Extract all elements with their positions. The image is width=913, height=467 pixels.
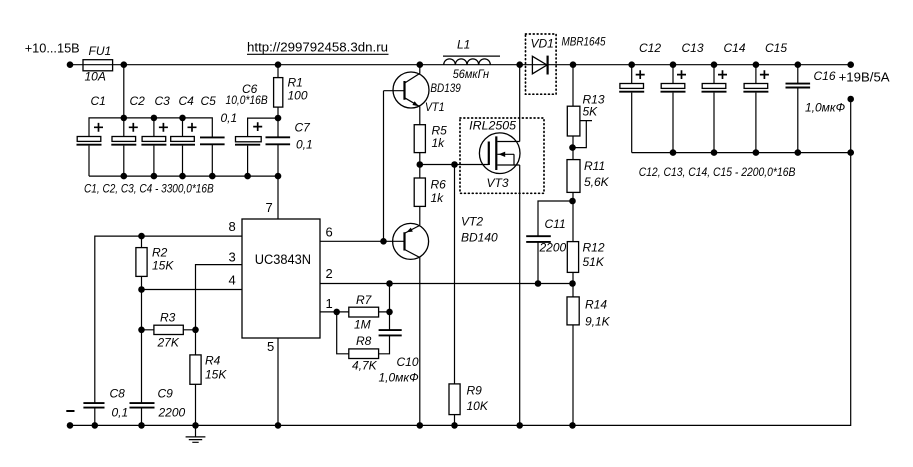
svg-text:4,7K: 4,7K [352,359,378,373]
svg-text:+19В/5А: +19В/5А [839,70,890,85]
svg-text:C5: C5 [201,94,217,108]
svg-text:C10: C10 [397,355,419,369]
svg-text:15K: 15K [152,259,174,273]
svg-text:C7: C7 [295,121,312,135]
svg-text:1,0мкФ: 1,0мкФ [379,371,420,385]
svg-text:4: 4 [229,273,236,288]
svg-text:C11: C11 [545,217,566,231]
svg-text:http://299792458.3dn.ru: http://299792458.3dn.ru [247,40,388,55]
svg-text:10,0*16В: 10,0*16В [226,93,268,107]
svg-text:R1: R1 [288,76,303,90]
svg-text:UC3843N: UC3843N [255,252,311,267]
svg-text:C8: C8 [110,387,126,401]
svg-text:C2: C2 [130,94,146,108]
svg-text:IRL2505: IRL2505 [469,119,516,133]
svg-text:1,0мкФ: 1,0мкФ [805,101,846,115]
svg-text:0,1: 0,1 [112,406,129,420]
svg-text:BD140: BD140 [461,231,498,245]
svg-text:2200: 2200 [539,241,567,255]
svg-text:0,1: 0,1 [296,138,313,152]
svg-text:2: 2 [326,266,333,281]
svg-text:5: 5 [267,339,274,354]
svg-text:VT3: VT3 [487,176,509,190]
svg-text:C16: C16 [814,69,836,83]
svg-text:R12: R12 [583,241,605,255]
svg-text:C1, C2, C3, C4 - 3300,0*16В: C1, C2, C3, C4 - 3300,0*16В [84,182,214,196]
svg-text:R2: R2 [152,246,168,260]
svg-text:6: 6 [326,225,333,240]
svg-text:MBR1645: MBR1645 [562,35,606,49]
svg-text:BD139: BD139 [430,81,461,95]
svg-text:+10...15В: +10...15В [25,41,80,56]
svg-text:R11: R11 [584,159,605,173]
svg-text:C12, C13, C14, C15 - 2200,0*16: C12, C13, C14, C15 - 2200,0*16В [639,165,796,179]
svg-text:C9: C9 [158,387,174,401]
svg-text:L1: L1 [457,38,470,52]
svg-text:9,1K: 9,1K [585,315,611,329]
svg-text:C4: C4 [179,94,195,108]
svg-text:C14: C14 [724,41,746,55]
svg-text:R9: R9 [467,384,483,398]
svg-text:2200: 2200 [158,406,186,420]
svg-text:C13: C13 [682,41,704,55]
svg-text:C3: C3 [155,94,171,108]
svg-text:51K: 51K [583,255,605,269]
svg-text:1: 1 [326,296,333,311]
svg-text:1k: 1k [431,191,445,205]
svg-text:R3: R3 [160,311,176,325]
svg-text:27K: 27K [157,336,180,350]
svg-text:5K: 5K [583,105,599,119]
svg-text:VT2: VT2 [461,215,483,229]
svg-text:VT1: VT1 [425,100,445,114]
svg-text:R6: R6 [431,178,447,192]
svg-text:8: 8 [229,219,236,234]
svg-text:FU1: FU1 [89,44,112,58]
svg-text:1k: 1k [432,136,446,150]
svg-text:15K: 15K [205,368,227,382]
svg-text:VD1: VD1 [531,37,554,51]
svg-text:R8: R8 [356,334,372,348]
svg-text:10K: 10K [467,399,489,413]
svg-text:3: 3 [229,250,236,265]
svg-text:7: 7 [266,200,273,215]
svg-text:1M: 1M [354,318,371,332]
svg-text:R14: R14 [585,298,607,312]
svg-text:10А: 10А [85,70,106,84]
svg-text:C1: C1 [91,94,106,108]
svg-text:5,6K: 5,6K [584,175,610,189]
svg-text:R7: R7 [356,293,373,307]
svg-text:0,1: 0,1 [221,111,238,125]
svg-text:56мкГн: 56мкГн [453,67,490,81]
svg-text:C12: C12 [639,41,661,55]
svg-text:100: 100 [288,89,308,103]
svg-text:C15: C15 [765,41,787,55]
svg-text:R4: R4 [205,354,221,368]
